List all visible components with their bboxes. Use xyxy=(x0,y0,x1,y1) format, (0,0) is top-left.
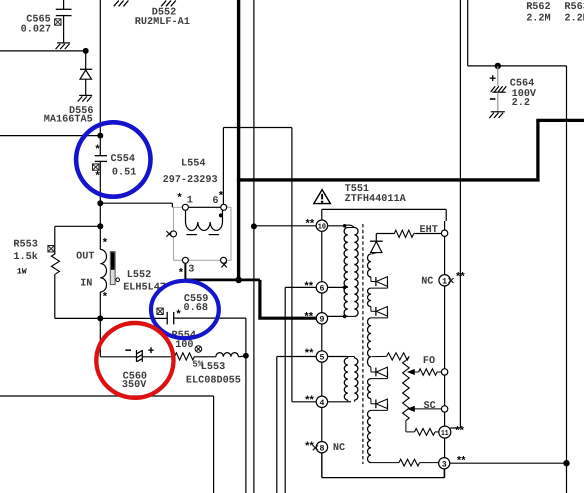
svg-text:NC: NC xyxy=(333,443,345,454)
svg-text:RU2MLF-A1: RU2MLF-A1 xyxy=(135,17,190,28)
svg-text:3: 3 xyxy=(188,265,194,276)
svg-text:L553: L553 xyxy=(201,362,225,373)
svg-text:FO: FO xyxy=(423,356,435,367)
svg-text:2.2M: 2.2M xyxy=(564,14,584,25)
svg-text:4: 4 xyxy=(319,399,324,408)
svg-text:C554: C554 xyxy=(111,154,135,165)
svg-text:*: * xyxy=(102,292,109,304)
svg-text:1: 1 xyxy=(187,196,193,207)
svg-text:1W: 1W xyxy=(17,268,27,277)
svg-text:3: 3 xyxy=(442,460,447,469)
svg-text:R563: R563 xyxy=(564,2,584,13)
svg-text:OUT: OUT xyxy=(76,252,94,263)
svg-text:1.5k: 1.5k xyxy=(13,251,37,263)
svg-text:ELC08D055: ELC08D055 xyxy=(186,376,241,387)
svg-text:*: * xyxy=(175,310,182,322)
svg-text:0.027: 0.027 xyxy=(21,25,52,36)
svg-text:10: 10 xyxy=(318,223,327,232)
svg-text:2.2M: 2.2M xyxy=(526,14,550,25)
svg-text:*: * xyxy=(218,191,225,203)
svg-text:R562: R562 xyxy=(526,2,550,13)
svg-text:6: 6 xyxy=(319,285,324,294)
svg-text:*: * xyxy=(176,193,183,205)
svg-text:EHT: EHT xyxy=(420,225,438,236)
svg-text:0.68: 0.68 xyxy=(184,303,208,314)
svg-text:5: 5 xyxy=(319,354,324,363)
svg-text:2.2: 2.2 xyxy=(512,98,530,109)
svg-text:1: 1 xyxy=(442,277,447,286)
svg-text:SC: SC xyxy=(424,401,436,412)
svg-text:350V: 350V xyxy=(122,380,147,391)
svg-text:IN: IN xyxy=(80,279,92,290)
svg-text:L554: L554 xyxy=(181,159,205,170)
svg-text:8: 8 xyxy=(319,444,324,453)
svg-text:L552: L552 xyxy=(127,270,151,281)
svg-text:*: * xyxy=(102,238,109,250)
svg-text:297-23293: 297-23293 xyxy=(163,175,218,186)
svg-text:100: 100 xyxy=(175,340,193,351)
svg-text:11: 11 xyxy=(441,430,449,438)
svg-text:*: * xyxy=(178,268,185,280)
svg-text:ZTFH44011A: ZTFH44011A xyxy=(345,194,407,205)
svg-text:0.51: 0.51 xyxy=(112,168,136,179)
svg-text:*: * xyxy=(94,171,101,183)
svg-text:NC: NC xyxy=(421,277,433,288)
svg-text:C564: C564 xyxy=(510,79,534,90)
svg-text:R553: R553 xyxy=(13,240,37,251)
svg-text:MA166TA5: MA166TA5 xyxy=(44,115,93,126)
svg-text:9: 9 xyxy=(319,315,324,324)
svg-text:*: * xyxy=(94,145,101,157)
